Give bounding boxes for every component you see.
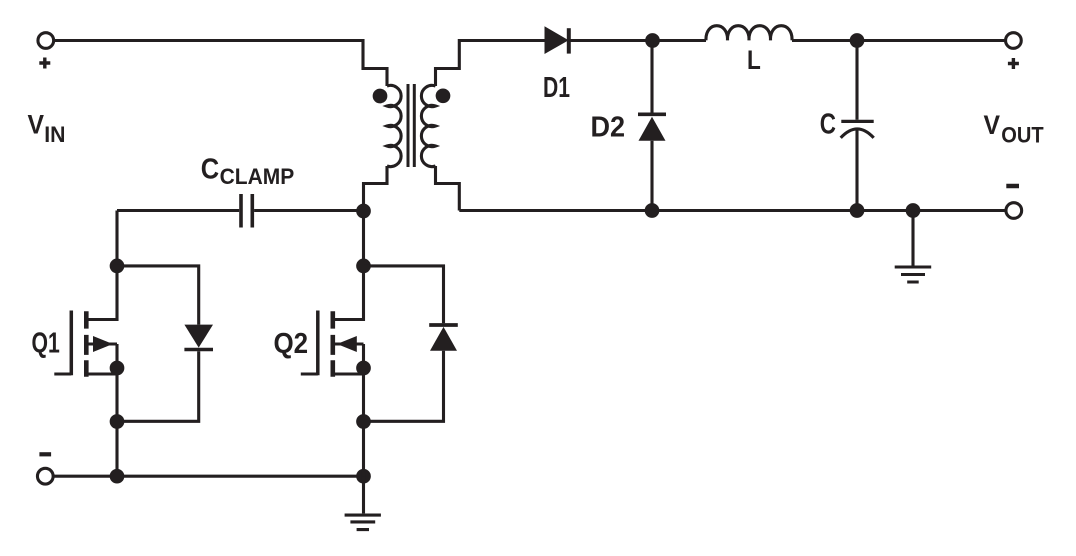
wire Q1 body-diode top branch [117, 266, 199, 325]
node Vin+ terminal [38, 33, 54, 49]
Vin minus polarity mark [39, 452, 51, 456]
transistor Q1 source lead [88, 372, 117, 375]
ground output [895, 267, 932, 282]
label D1 [543, 72, 570, 104]
svg-text:CLAMP: CLAMP [220, 164, 295, 189]
node junction C/rail [850, 203, 865, 218]
wire Q2 body-diode bottom branch [364, 351, 444, 422]
node Q1 drain junction [110, 259, 125, 274]
wire transformer secondary bottom to output rail [436, 166, 460, 211]
transistor Q2 body arrow [335, 336, 364, 352]
transistor Q1 body arrow [88, 336, 117, 352]
transformer T1 primary dot [373, 89, 388, 104]
wire clamp left segment [117, 209, 239, 212]
wire main ground stem [362, 476, 365, 513]
wire Q1 source column [115, 344, 118, 476]
wire output ground stem [911, 211, 914, 266]
label CCLAMP [201, 154, 295, 189]
svg-text:Q2: Q2 [274, 328, 309, 360]
label D2 [591, 112, 626, 144]
node Vout+ terminal [1006, 33, 1022, 49]
wire Q2 body-diode top branch [364, 266, 444, 323]
wire D2 cathode branch [650, 41, 653, 113]
wire Q2 source column [362, 344, 365, 476]
node junction primary/clamp [356, 204, 371, 219]
node junction Q2/bottom rail [356, 469, 371, 484]
svg-text:IN: IN [44, 122, 65, 147]
svg-text:C: C [201, 154, 219, 186]
capacitor CCLAMP [241, 194, 252, 228]
wire clamp down to Q1 drain node [115, 211, 118, 266]
wire output bottom rail [459, 209, 1005, 212]
wire Q1 body-diode bottom branch [117, 351, 199, 421]
svg-text:V: V [984, 110, 1001, 140]
node junction L/C [850, 33, 865, 48]
svg-text:D1: D1 [543, 72, 570, 104]
node Q1 bottom junction [110, 414, 125, 429]
wire C top branch [855, 41, 858, 120]
transistor Q1 drain lead [88, 273, 117, 320]
transformer T1 secondary dot [436, 88, 451, 103]
transistor Q1 gate lead [54, 372, 71, 375]
wire bottom input rail [53, 475, 363, 478]
label C [820, 109, 836, 141]
node Q2 source junction [356, 361, 371, 376]
label Q1 [32, 328, 60, 360]
label L [747, 45, 761, 75]
wire C bottom to rail [855, 131, 858, 211]
node Q1 source junction [110, 361, 125, 376]
transformer T1 core [408, 84, 414, 167]
node junction ground/rail [906, 203, 921, 218]
wire D1 cathode to inductor [569, 39, 706, 42]
wire D2 anode to bottom rail [650, 141, 653, 211]
transformer T1 primary winding [387, 85, 401, 166]
node junction D1/D2/L [645, 33, 660, 48]
Vout plus polarity mark [1008, 58, 1019, 69]
wire transformer secondary top to D1 anode [436, 41, 545, 87]
transistor Q1 channel segments [84, 311, 89, 376]
node Vout- terminal [1006, 203, 1022, 219]
svg-text:V: V [28, 110, 45, 140]
label Q2 [274, 328, 309, 360]
node junction D2/rail [645, 203, 660, 218]
node Q2 drain junction [356, 259, 371, 274]
transformer T1 secondary winding [421, 85, 435, 166]
svg-text:OUT: OUT [1001, 122, 1044, 147]
Vout minus polarity mark [1006, 184, 1019, 189]
transistor Q2 gate lead [301, 372, 318, 375]
transistor Q2 source lead [335, 372, 364, 375]
Vin plus polarity mark [39, 58, 50, 69]
ground main [345, 515, 381, 530]
body diode of Q1 [184, 325, 213, 350]
transistor Q2 channel segments [330, 311, 335, 376]
wire L to Vout+ [792, 39, 1006, 42]
node junction Q1/bottom rail [110, 469, 125, 484]
body diode of Q2 [429, 325, 458, 351]
wire clamp right segment [254, 209, 363, 212]
transistor Q1 gate bar [70, 311, 74, 376]
diode D2 [638, 114, 666, 141]
capacitor C [841, 121, 874, 137]
svg-text:D2: D2 [591, 112, 626, 144]
svg-text:Q1: Q1 [32, 328, 60, 360]
transistor Q2 drain lead [335, 273, 364, 320]
svg-text:L: L [747, 45, 761, 75]
transistor Q2 gate bar [316, 311, 320, 376]
label VOUT [984, 110, 1045, 147]
diode D1 [545, 26, 569, 54]
node Q2 bottom junction [356, 414, 371, 429]
label VIN [28, 110, 66, 148]
inductor L [706, 26, 792, 41]
wire transformer primary bottom to clamp node [364, 166, 388, 266]
svg-text:C: C [820, 109, 836, 141]
wire top rail from Vin+ to transformer primary top [54, 41, 387, 87]
node Vin- terminal [37, 468, 53, 484]
